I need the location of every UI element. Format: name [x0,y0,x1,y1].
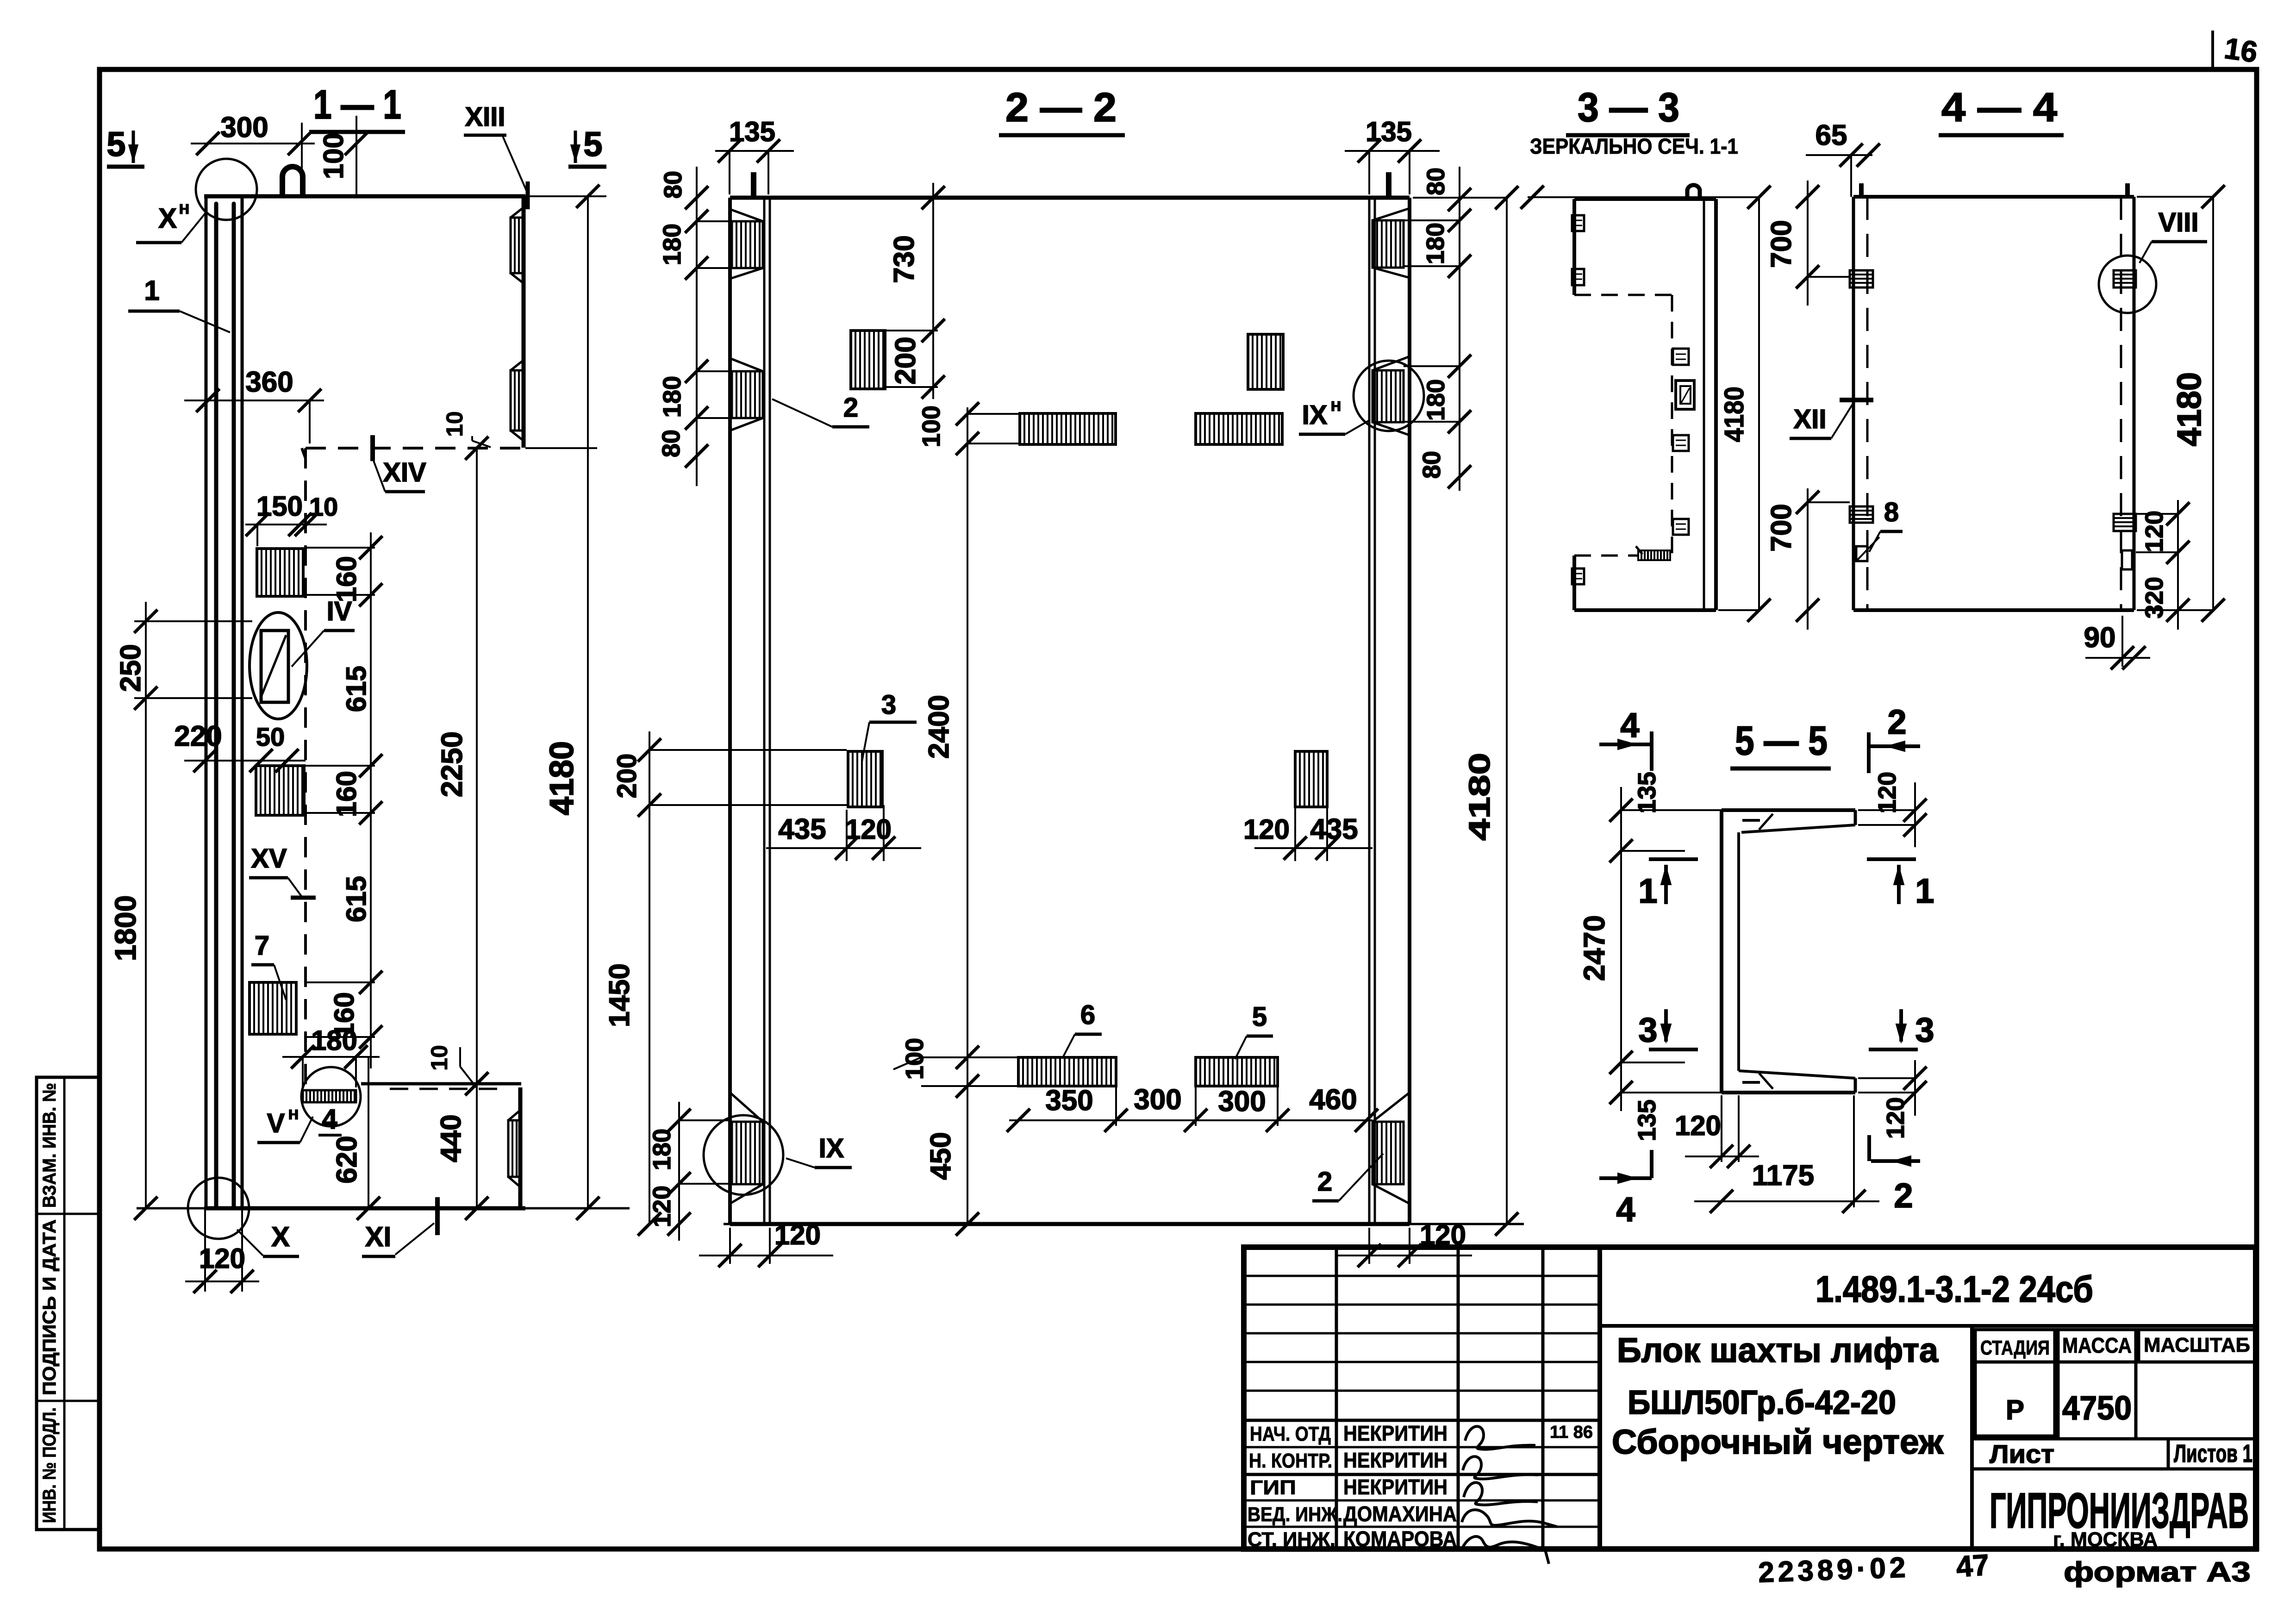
svg-text:10: 10 [426,1045,452,1071]
svg-text:200: 200 [612,754,642,799]
svg-text:4180: 4180 [1463,753,1496,841]
svg-text:135: 135 [1366,116,1412,147]
svg-text:11 86: 11 86 [1550,1423,1593,1442]
svg-text:XIII: XIII [465,102,505,132]
3-3 plate b [1673,435,1689,451]
svg-text:160: 160 [331,556,362,602]
cut marker 1 right [1867,857,1916,861]
embedded plate IV oval [250,612,307,719]
svg-text:16: 16 [2222,31,2260,69]
svg-text:1800: 1800 [109,895,142,961]
wall inner line 4 [241,196,244,1208]
3-3 web inner dashed [1671,295,1673,554]
svg-text:435: 435 [778,813,826,845]
svg-text:180: 180 [1422,223,1449,264]
svg-text:4180: 4180 [2171,372,2208,446]
value cells [1975,1362,2055,1436]
svg-text:ИНВ. № ПОДЛ.: ИНВ. № ПОДЛ. [39,1407,60,1523]
svg-text:80: 80 [1422,168,1450,195]
signoff table rows [1244,1275,1600,1277]
svg-text:X: X [271,1221,290,1252]
field plate long right [1196,413,1282,444]
2-2 left wall outer face [728,198,732,1224]
svg-text:4180: 4180 [543,741,580,815]
svg-text:65: 65 [1816,119,1847,151]
detail circle 4 [301,1067,361,1126]
svg-text:СТ. ИНЖ.: СТ. ИНЖ. [1248,1528,1335,1551]
3-3 lower stub left edge [1572,556,1576,610]
4-4 right pin [2125,183,2130,197]
svg-text:НЕКРИТИН: НЕКРИТИН [1343,1448,1447,1472]
dim 730 200 [932,183,934,399]
4-4 right wall dashed [2120,197,2122,610]
right wall key block B3 [1373,1122,1404,1184]
left stamp table [37,1077,100,1530]
3-3 bottom step [1636,546,1642,554]
svg-text:н: н [288,1103,299,1124]
header boxes [1975,1330,2055,1362]
top edge of panel 1-1 [204,194,525,199]
bottom edge baseline [137,1207,630,1210]
lifting loop 1-1 [282,167,303,196]
svg-text:НАЧ. ОТД: НАЧ. ОТД [1250,1423,1331,1445]
svg-text:10: 10 [442,411,468,437]
4-4 plate upper left [1850,270,1873,287]
svg-text:300: 300 [220,112,268,144]
svg-text:5: 5 [583,125,602,163]
svg-text:н: н [1330,395,1341,415]
5-5 web outer face [1720,810,1723,1093]
svg-text:ЗЕРКАЛЬНО СЕЧ. 1-1: ЗЕРКАЛЬНО СЕЧ. 1-1 [1530,134,1738,158]
web step corner [302,448,306,458]
dim col 160 615 160 615 160 [370,532,372,1068]
left wall key block B1 [732,221,763,268]
title block main vertical [1597,1247,1602,1549]
svg-text:2: 2 [1317,1167,1332,1197]
2-2 right lifting loop [1386,172,1391,198]
bottom flange right edge [518,1087,523,1208]
wall rail line 3 [232,204,236,1208]
3-3 bottom strip plate [1638,550,1670,560]
svg-text:700: 700 [1766,504,1797,551]
top edge extension [525,195,606,197]
3-3 bottom edge [1574,608,1716,612]
svg-text:VIII: VIII [2158,207,2198,237]
svg-text:БШЛ50Гр.б-42-20: БШЛ50Гр.б-42-20 [1628,1384,1896,1421]
svg-text:Листов 1: Листов 1 [2174,1440,2252,1468]
detail circle IX [704,1115,783,1195]
svg-text:2 — 2: 2 — 2 [1005,84,1117,130]
4-4 bracket 8 left [1856,546,1867,561]
5-5 top edge [1722,808,1855,812]
svg-text:1.489.1-3.1-2 24сб: 1.489.1-3.1-2 24сб [1816,1268,2093,1310]
svg-text:450: 450 [925,1132,957,1180]
svg-text:5 — 5: 5 — 5 [1735,718,1828,763]
3-3 lower notch [1572,568,1584,584]
4-4 plate lower left [1850,506,1873,523]
svg-text:Лист: Лист [1990,1439,2054,1468]
svg-text:НЕКРИТИН: НЕКРИТИН [1343,1475,1447,1499]
field plate long left [1020,413,1116,444]
4-4 bottom edge [1853,608,2134,612]
3-3 flange inner dashed top [1574,294,1672,296]
right dim col 80 180 180 80 [1459,167,1460,491]
detail circle X top [196,159,257,220]
svg-text:460: 460 [1309,1084,1357,1116]
flange inner face dashed [306,447,522,450]
4-4 top edge [1853,195,2134,199]
svg-text:80: 80 [1418,451,1446,479]
svg-text:XII: XII [1794,404,1827,434]
cut marker 1 left [1649,857,1698,861]
field plate 3 right [1295,751,1327,807]
svg-text:3 — 3: 3 — 3 [1578,84,1679,130]
doc number cell line [1600,1324,2256,1328]
field plate upper right [1248,334,1283,389]
svg-text:180: 180 [658,376,686,418]
right edge top flange [522,196,526,448]
svg-text:7: 7 [255,931,269,961]
svg-text:4: 4 [1616,1190,1635,1229]
svg-text:Н. КОНТР.: Н. КОНТР. [1249,1449,1332,1472]
svg-text:8: 8 [1884,497,1899,527]
svg-text:220: 220 [174,720,222,752]
4-4 plate lower right [2114,514,2136,531]
svg-text:2250: 2250 [435,731,468,797]
svg-text:50: 50 [256,722,285,751]
signature 4 [1462,1510,1557,1527]
svg-text:100: 100 [318,133,349,179]
svg-text:1: 1 [1915,872,1934,910]
svg-text:620: 620 [331,1136,363,1183]
svg-text:5: 5 [1252,1002,1267,1032]
left wall key block B2 [732,371,763,418]
page number 16 tick [2211,31,2214,70]
svg-text:2: 2 [1894,1176,1913,1215]
left wall bottom dims 180 120 [678,1102,680,1241]
svg-text:3: 3 [881,690,896,720]
svg-text:Сборочный чертеж: Сборочный чертеж [1612,1423,1944,1461]
cut marker 2 bottom [1871,1159,1920,1163]
svg-text:180: 180 [1422,379,1450,421]
svg-text:X: X [158,203,177,234]
4-4 left wall solid [1852,197,1855,610]
svg-text:300: 300 [1134,1084,1181,1116]
right wall key block B1 [1373,220,1404,268]
field plate 5 [1196,1057,1278,1086]
svg-text:1175: 1175 [1752,1160,1815,1192]
svg-text:200: 200 [890,337,922,384]
svg-text:1450: 1450 [604,963,636,1027]
3-3 right wall outer [1714,199,1718,610]
2-2 left wall inner face double [763,198,766,1224]
svg-text:3: 3 [1915,1011,1934,1049]
svg-text:V: V [267,1108,285,1138]
svg-text:НЕКРИТИН: НЕКРИТИН [1343,1421,1447,1445]
detail circle X bottom [188,1178,249,1239]
svg-text:120: 120 [845,814,892,845]
list row [1972,1437,2256,1441]
svg-text:2400: 2400 [923,695,955,759]
5-5 bottom flange tip [1854,1078,1857,1093]
dim 120 320 right [2177,500,2179,630]
5-5 top flange tip [1854,810,1857,825]
svg-text:2470: 2470 [1578,915,1611,981]
3-3 upper notch 2 [1572,269,1584,285]
svg-text:МАСШТАБ: МАСШТАБ [2144,1334,2250,1356]
right wall key block B2 [1373,370,1404,422]
svg-text:4180: 4180 [1719,387,1749,442]
3-3 upper stub left edge [1572,199,1576,295]
dim 200 1450 left col [649,731,650,1224]
2-2 left lifting loop [751,172,756,198]
svg-text:80: 80 [659,171,687,199]
svg-text:360: 360 [245,366,293,398]
svg-text:300: 300 [1218,1086,1266,1118]
embedded plate 7 [250,982,296,1034]
svg-text:100: 100 [917,406,945,447]
4-4 right wall solid [2133,197,2136,610]
detail circle VIII [2099,256,2156,313]
4-4 left pin [1859,183,1864,197]
5-5 weld dash bottom [1742,1081,1760,1084]
svg-text:120: 120 [1873,772,1901,813]
svg-text:180: 180 [648,1129,676,1170]
2-2 top edge [730,196,1410,200]
svg-text:90: 90 [2084,622,2116,654]
signature 5 [1463,1537,1549,1564]
svg-text:22389·02: 22389·02 [1758,1551,1909,1588]
cut marker 4 bottom [1599,1176,1652,1180]
svg-text:180: 180 [311,1025,357,1056]
svg-text:615: 615 [341,666,372,712]
svg-text:XIV: XIV [383,457,426,487]
svg-text:4750: 4750 [2062,1390,2132,1427]
field plate 6 [1018,1057,1116,1086]
svg-text:ГИП: ГИП [1250,1476,1296,1499]
svg-text:440: 440 [435,1114,467,1162]
svg-text:100: 100 [901,1038,929,1080]
svg-text:XV: XV [251,843,287,874]
svg-text:г. МОСКВА: г. МОСКВА [2053,1528,2158,1551]
bottom edge of panel 1-1 [204,1206,525,1211]
svg-text:700: 700 [1766,220,1797,268]
4-4 bracket right [2122,550,2132,569]
svg-text:180: 180 [658,224,686,265]
svg-text:ПОДПИСЬ И ДАТА: ПОДПИСЬ И ДАТА [39,1219,60,1395]
svg-text:1: 1 [144,275,159,306]
svg-text:730: 730 [888,235,920,283]
3-3 window plate [1676,381,1694,409]
embedded plate 4 strip [303,1090,356,1102]
3-3 upper notch 1 [1572,215,1584,231]
web inner face dashed [304,448,307,1088]
svg-text:250: 250 [115,644,147,692]
svg-text:5: 5 [106,125,125,163]
svg-text:формат А3: формат А3 [2064,1556,2251,1587]
svg-text:3: 3 [1638,1011,1657,1049]
svg-text:320: 320 [2140,577,2168,618]
2-2 bottom edge [724,1223,1524,1225]
svg-text:350: 350 [1045,1085,1093,1117]
svg-text:615: 615 [341,876,372,922]
svg-text:120: 120 [1243,814,1290,845]
field plate 3 left [848,751,882,807]
svg-text:2: 2 [1887,703,1906,741]
stadia massa masshtab column [1970,1326,1974,1549]
svg-text:ВЗАМ. ИНВ. №: ВЗАМ. ИНВ. № [39,1083,60,1208]
svg-text:2: 2 [843,393,858,423]
svg-text:120: 120 [648,1186,676,1227]
svg-text:IX: IX [1302,400,1328,430]
svg-text:4 — 4: 4 — 4 [1941,84,2057,130]
wall outer face left [205,196,208,1208]
shear key notch top right 2 [511,370,524,431]
4-4 plate upper right [2114,270,2136,287]
left dim col 80 180 180 80 [696,167,698,486]
detail circle IXn [1354,361,1424,431]
field plate upper left [851,331,885,389]
embedded plate 1-1 P1 [257,549,303,596]
svg-text:Р: Р [2006,1394,2024,1425]
embedded plate 1-1 P2 [256,766,304,815]
5-5 web inner face [1737,832,1740,1071]
shear key notch bottom right [508,1120,520,1177]
5-5 bottom flange inner face [1739,1071,1855,1078]
signoff table columns [1335,1247,1338,1549]
3-3 plate a [1673,349,1689,365]
2-2 right wall inner face double [1368,198,1371,1224]
5-5 top flange inner face [1741,825,1855,832]
bottom flange inner dashed [390,1088,505,1090]
2-2 right wall outer face [1408,198,1411,1224]
svg-text:КОМАРОВА: КОМАРОВА [1343,1527,1457,1551]
svg-text:135: 135 [1633,772,1661,813]
shear key notch top right 1 [511,218,524,273]
5-5 bottom edge [1722,1091,1855,1094]
3-3 plate c [1673,519,1689,535]
signature 3 [1464,1482,1538,1505]
svg-text:ВЕД. ИНЖ.: ВЕД. ИНЖ. [1248,1503,1342,1526]
svg-text:ДОМАХИНА: ДОМАХИНА [1343,1502,1457,1526]
svg-text:47: 47 [1955,1548,1990,1584]
left wall key block B3 [732,1122,763,1184]
wall rail line 2 [214,204,218,1208]
title block outer [1244,1247,2256,1549]
svg-text:4: 4 [322,1104,337,1135]
signature 1 [1465,1426,1535,1449]
svg-text:IX: IX [819,1133,844,1163]
4-4 left wall dashed [1866,197,1869,610]
3-3 lifting loop [1687,185,1700,199]
svg-text:80: 80 [657,430,685,457]
3-3 bottom flange dashed [1574,555,1638,557]
svg-text:4: 4 [1620,706,1639,744]
svg-text:120: 120 [1675,1110,1721,1141]
5-5 weld dash top [1742,819,1760,822]
svg-text:СТАДИЯ: СТАДИЯ [1980,1337,2050,1359]
3-3 right wall inner [1703,199,1705,610]
svg-text:МАССА: МАССА [2062,1333,2132,1357]
svg-text:IV: IV [327,596,352,626]
dim col 100 2400 100 450 [967,407,968,1224]
svg-text:160: 160 [331,771,362,817]
svg-text:1: 1 [1638,872,1657,910]
3-3 top edge [1574,197,1716,201]
svg-text:120: 120 [2140,511,2168,552]
svg-text:135: 135 [1633,1099,1661,1141]
svg-text:6: 6 [1080,1000,1095,1030]
svg-text:Блок шахты лифта: Блок шахты лифта [1617,1331,1939,1369]
svg-text:XI: XI [365,1221,392,1252]
signature 2 [1463,1456,1538,1479]
svg-text:н: н [179,198,190,218]
bottom flange inner face [361,1082,521,1086]
